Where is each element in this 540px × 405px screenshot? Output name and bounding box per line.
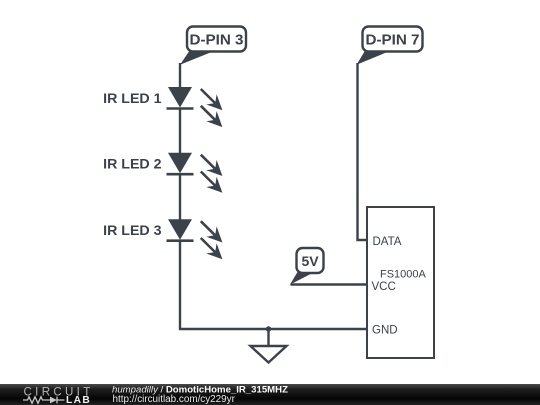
CircuitLab logo resistor-diode symbol (23, 397, 65, 404)
footer bar (0, 384, 540, 405)
svg-text:IR LED 2: IR LED 2 (103, 157, 161, 173)
svg-text:D-PIN 7: D-PIN 7 (365, 32, 419, 49)
svg-text:GND: GND (372, 325, 398, 337)
svg-text:VCC: VCC (372, 281, 396, 293)
svg-text:LAB: LAB (66, 395, 91, 405)
flag 5V (290, 248, 324, 285)
LED D3 (IR LED 3) (167, 219, 223, 259)
CircuitLab logo wordmark (24, 387, 94, 405)
svg-text:FS1000A: FS1000A (380, 269, 427, 281)
wire D-PIN7 to FS1000A DATA pin (358, 63, 368, 240)
ground (251, 329, 287, 363)
wire D-PIN3 tail to LED1 anode (179, 63, 181, 88)
LED D2 (IR LED 2) (167, 153, 223, 193)
svg-text:D-PIN 3: D-PIN 3 (189, 32, 243, 49)
wire LED2 cathode to LED3 anode (179, 174, 181, 219)
flag D-PIN 3 (180, 27, 246, 65)
wire LED3 cathode down and right to FS1000A GND pin (180, 241, 367, 329)
svg-text:http://circuitlab.com/cy229yr: http://circuitlab.com/cy229yr (113, 394, 236, 405)
IC U1 FS1000A box (367, 207, 434, 358)
junction node (266, 326, 271, 331)
svg-text:IR LED 3: IR LED 3 (103, 223, 161, 239)
LED D1 (IR LED 1) (167, 87, 223, 127)
svg-text:DATA: DATA (373, 236, 402, 248)
svg-text:5V: 5V (301, 253, 319, 269)
flag D-PIN 7 (357, 27, 423, 65)
wire LED1 cathode to LED2 anode (179, 109, 181, 154)
svg-text:IR LED 1: IR LED 1 (103, 91, 161, 107)
wire 5V to FS1000A VCC pin (291, 283, 368, 285)
